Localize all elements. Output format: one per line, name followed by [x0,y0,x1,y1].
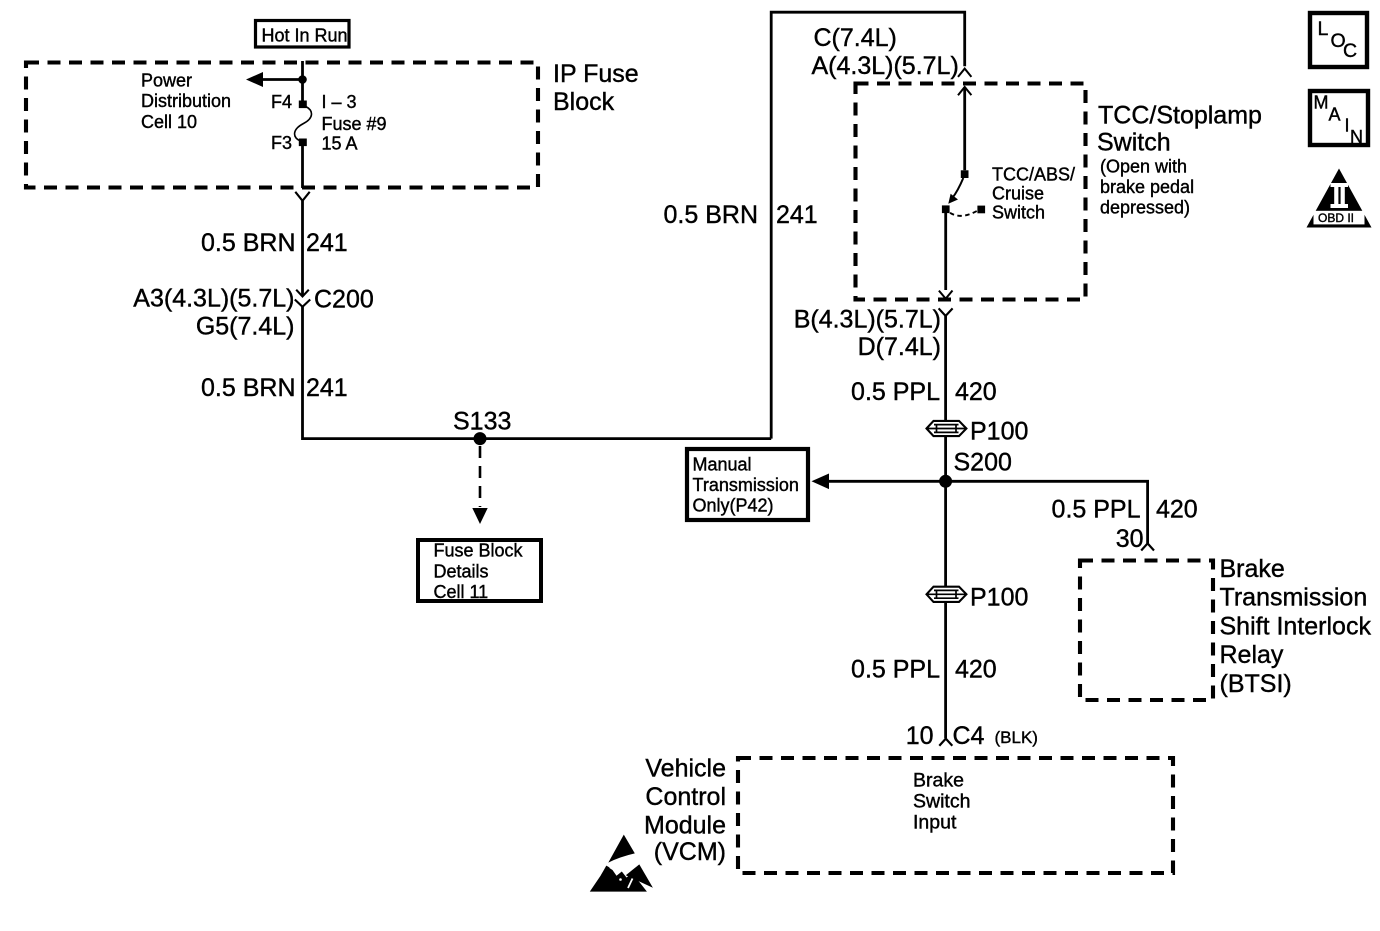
svg-text:Brake: Brake [913,770,964,792]
svg-text:(Open with: (Open with [1100,157,1187,177]
svg-text:420: 420 [1156,496,1198,524]
fuse F4/F3 Fuse #9 15A [295,101,312,147]
svg-text:P100: P100 [970,418,1028,446]
wire down to C200 [301,201,304,296]
svg-text:(VCM): (VCM) [654,838,726,866]
TCC/ABS/Cruise Switch label [992,165,1075,223]
Power Distribution Cell 10 label [141,71,231,132]
branch wire from S200 to BTSI relay [946,481,1148,543]
dashed reference line to Fuse Block Details [479,446,482,507]
svg-text:Hot In Run: Hot In Run [262,26,348,46]
wire C200 down to corner and right to S133 [303,307,772,439]
svg-text:0.5 PPL: 0.5 PPL [1052,496,1141,524]
svg-text:S200: S200 [954,449,1012,477]
svg-text:Cruise: Cruise [992,184,1044,204]
svg-text:Input: Input [913,812,957,834]
wire label 0.5 PPL 420 (branch) [1052,496,1198,524]
dashed actuator link [950,211,977,216]
svg-text:C(7.4L): C(7.4L) [814,24,897,52]
connector chevron at VCM pin 10 C4 [939,739,952,746]
svg-text:TCC/ABS/: TCC/ABS/ [992,165,1075,185]
svg-text:brake pedal: brake pedal [1100,177,1194,197]
connector pin labels C / A [812,24,959,80]
Manual Transmission Only box [687,449,808,520]
svg-text:Only(P42): Only(P42) [693,496,774,516]
svg-text:241: 241 [776,201,818,229]
main vertical wire down to VCM [944,316,947,738]
svg-text:30: 30 [1116,525,1144,553]
Vehicle Control Module label [644,755,726,867]
svg-text:Shift Interlock: Shift Interlock [1220,612,1372,640]
switch lower contact [942,205,950,213]
svg-text:Fuse #9: Fuse #9 [322,114,387,134]
connector pin labels B / D [794,306,941,362]
svg-text:241: 241 [306,374,348,402]
Fuse Block Details box [418,540,541,602]
svg-text:Power: Power [141,71,192,91]
svg-text:Relay: Relay [1220,641,1284,669]
svg-text:Fuse Block: Fuse Block [434,541,524,561]
svg-text:Block: Block [553,88,615,116]
svg-text:G5(7.4L): G5(7.4L) [196,313,295,341]
svg-text:420: 420 [955,378,997,406]
arrowhead to Power Distribution [246,72,263,87]
svg-text:I – 3: I – 3 [322,92,357,112]
wire label 0.5 BRN 241 [201,229,348,257]
TCC/Stoplamp Switch dashed box [856,84,1086,300]
connector chevron below TCC box (B/D) [939,308,953,316]
svg-text:F4: F4 [271,92,292,112]
svg-text:0.5 BRN: 0.5 BRN [664,201,758,229]
svg-text:420: 420 [955,656,997,684]
splice S133 [474,432,487,445]
arrowhead down [472,508,487,524]
svg-text:OBD II: OBD II [1318,211,1354,225]
svg-text:C: C [1343,40,1357,62]
svg-text:depressed): depressed) [1100,198,1190,218]
svg-text:N: N [1350,127,1363,147]
svg-text:I: I [1345,116,1350,136]
wire label 0.5 BRN 241 [201,374,348,402]
svg-text:(BLK): (BLK) [995,728,1038,747]
svg-text:Control: Control [645,783,726,811]
wire to Manual Transmission arrow [828,480,941,483]
VCM dashed box [738,758,1173,873]
svg-text:TCC/Stoplamp: TCC/Stoplamp [1098,102,1262,130]
svg-text:Module: Module [644,812,726,840]
wire F3 to box edge [301,146,304,188]
wire label 0.5 PPL 420 (lower) [851,656,997,684]
svg-text:C200: C200 [314,286,374,314]
MAIN reference box [1310,91,1368,147]
left vertical wire up to top and across to TCC drop [771,12,965,438]
svg-text:Cell 11: Cell 11 [434,582,489,602]
svg-text:M: M [1314,93,1329,113]
svg-text:241: 241 [306,229,348,257]
TCC/Stoplamp Switch labels [1097,102,1262,218]
svg-text:Transmission: Transmission [1220,584,1368,612]
wire label 0.5 PPL 420 [851,378,997,406]
IP Fuse Block label [553,60,639,116]
switch upper contact [961,170,969,178]
switch entry arrow (up) inside TCC box [958,87,971,95]
svg-text:Switch: Switch [992,203,1045,223]
svg-text:0.5 PPL: 0.5 PPL [851,656,940,684]
Brake Switch Input label [913,770,970,834]
svg-text:Details: Details [434,562,489,582]
svg-text:(BTSI): (BTSI) [1220,670,1292,698]
svg-text:D(7.4L): D(7.4L) [858,333,941,361]
in-line connector P100 (upper) [927,421,967,436]
svg-text:B(4.3L)(5.7L): B(4.3L)(5.7L) [794,306,941,334]
svg-text:Distribution: Distribution [141,91,231,111]
svg-text:A(4.3L)(5.7L): A(4.3L)(5.7L) [812,52,959,80]
C200 pin labels [133,285,294,341]
svg-text:Switch: Switch [913,791,970,813]
ESD sensitivity symbol [590,835,657,894]
svg-text:C4: C4 [953,722,985,750]
svg-text:Transmission: Transmission [693,475,799,495]
svg-text:F3: F3 [271,133,292,153]
svg-text:A: A [1329,105,1341,125]
svg-text:L: L [1318,18,1329,40]
BTSI relay labels [1220,555,1372,698]
BTSI relay dashed box [1080,561,1213,701]
connector chevron at relay pin 30 [1141,543,1154,550]
OBD II symbol [1307,169,1372,228]
actuator terminal square [977,206,985,214]
svg-text:Vehicle: Vehicle [645,755,726,783]
wire label 0.5 BRN 241 (top) [664,201,818,229]
wire lower contact down to box edge with arrowhead [944,213,947,290]
switch blade with arrowhead [953,178,964,198]
svg-text:A3(4.3L)(5.7L): A3(4.3L)(5.7L) [133,285,294,313]
svg-text:Manual: Manual [693,455,752,475]
connector C200 double chevron [295,290,310,307]
junction dot [298,75,307,84]
fuse value label I-3 Fuse #9 15 A [322,92,387,154]
svg-text:0.5 BRN: 0.5 BRN [201,229,295,257]
svg-text:Cell 10: Cell 10 [141,112,197,132]
svg-text:IP Fuse: IP Fuse [553,60,639,88]
IP Fuse Block dashed box [26,63,538,188]
svg-text:Brake: Brake [1220,555,1285,583]
label Hot In Run [256,21,350,48]
wire to power distribution arrow [261,78,303,81]
connector chevron at TCC box top [958,69,971,77]
svg-text:P100: P100 [970,584,1028,612]
svg-text:Switch: Switch [1097,129,1171,157]
connector chevron below IP fuse block [295,192,309,201]
svg-text:15 A: 15 A [322,134,358,154]
LOC reference box [1310,13,1367,67]
svg-text:0.5 PPL: 0.5 PPL [851,378,940,406]
svg-text:10: 10 [906,722,934,750]
in-line connector P100 (lower) [927,587,967,602]
svg-text:0.5 BRN: 0.5 BRN [201,374,295,402]
svg-text:S133: S133 [453,408,511,436]
wire from Hot In Run into fuse block [301,61,304,101]
